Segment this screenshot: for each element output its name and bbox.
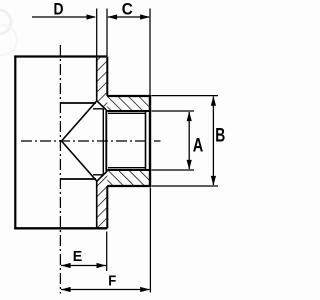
bore walls <box>60 103 96 179</box>
svg-text:C: C <box>122 0 133 19</box>
hatch flange top <box>97 57 108 112</box>
flange inner edge <box>96 57 98 229</box>
extension line E right <box>106 232 108 272</box>
dimension B <box>211 96 225 186</box>
thread major lines <box>107 111 150 170</box>
extension line C right <box>149 9 151 96</box>
svg-text:D: D <box>54 0 64 19</box>
chamfer bottom <box>97 171 108 181</box>
dimension C <box>107 0 149 20</box>
flange right edge <box>106 57 108 229</box>
extension line C left <box>106 9 108 57</box>
svg-text:B: B <box>215 126 225 147</box>
extension line F right <box>149 188 151 293</box>
svg-text:F: F <box>108 272 116 289</box>
body outline <box>14 56 107 229</box>
chamfer top <box>97 101 108 111</box>
hatch boss bottom <box>107 170 150 186</box>
thread minor lines <box>108 113 146 167</box>
dimension D <box>32 0 96 20</box>
extension line D <box>96 9 98 57</box>
extension line B bottom <box>152 185 219 187</box>
watermark arc top-left <box>0 10 17 55</box>
extension line A bottom <box>152 169 195 171</box>
vertical centerline <box>59 45 61 294</box>
hatch flange bottom <box>97 171 108 228</box>
horizontal centerline <box>21 140 161 142</box>
shoulder step lines <box>93 109 103 175</box>
socket shoulder faces <box>103 109 106 175</box>
dimension A <box>187 111 204 169</box>
svg-text:E: E <box>73 248 83 265</box>
extension line A top <box>152 110 195 112</box>
hatch boss top <box>107 96 150 111</box>
boss outer walls <box>107 95 150 187</box>
dimension F <box>61 272 150 292</box>
thread end face <box>145 111 147 170</box>
svg-text:A: A <box>193 135 204 156</box>
extension line B top <box>152 95 219 97</box>
drill cone <box>62 101 97 181</box>
dimension E <box>61 248 106 268</box>
